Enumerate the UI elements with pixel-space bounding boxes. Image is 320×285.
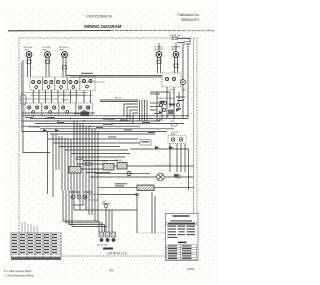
terminal feeder L1 bbox=[63, 190, 99, 221]
wire bbox=[75, 90, 77, 103]
wire drop bbox=[136, 196, 138, 233]
infinite switch SW1 bbox=[30, 77, 42, 90]
legend table text bbox=[168, 245, 192, 259]
part number bar bbox=[103, 248, 113, 250]
terminal feeder L4 bbox=[72, 190, 107, 226]
EOC drop wires bbox=[156, 92, 158, 118]
svg-text:RELAY: RELAY bbox=[115, 159, 123, 162]
connector arrow bbox=[43, 129, 47, 132]
harness block wire bbox=[75, 113, 81, 115]
connector arrow bbox=[155, 146, 160, 149]
oven light bbox=[157, 173, 165, 181]
wire bbox=[164, 176, 193, 178]
dashed wire bbox=[156, 164, 173, 166]
relay contacts bbox=[140, 140, 151, 146]
EOC dark marks bbox=[160, 101, 165, 103]
svg-text:UNIT: UNIT bbox=[171, 49, 177, 51]
scan speckle bbox=[6, 10, 214, 278]
surface element SU4 bbox=[156, 52, 162, 58]
surface element SU1 bbox=[26, 52, 32, 58]
supply drop wire bbox=[175, 43, 177, 52]
sensor wire bbox=[151, 192, 153, 233]
wire bbox=[86, 172, 110, 174]
svg-text:UNIT: UNIT bbox=[42, 50, 48, 52]
wire top row long bbox=[66, 75, 162, 77]
wire bbox=[62, 57, 64, 77]
wire label bbox=[103, 119, 115, 120]
terminal lug bbox=[112, 238, 116, 242]
wire bbox=[22, 112, 95, 114]
wire bbox=[90, 91, 92, 104]
wire bbox=[154, 187, 194, 189]
wire bbox=[30, 117, 188, 119]
surface element SU2 bbox=[45, 52, 51, 58]
dashed wire to legend bbox=[138, 232, 165, 234]
terminal box under SU4 bbox=[157, 60, 161, 64]
wire bbox=[22, 115, 188, 117]
legend title bar bbox=[167, 222, 197, 225]
wire bbox=[90, 176, 157, 178]
terminal block bbox=[99, 232, 104, 237]
selector label bbox=[81, 73, 93, 74]
svg-text:UNIT SW: UNIT SW bbox=[154, 49, 163, 51]
wire door cluster feed bbox=[98, 194, 137, 196]
terminal lug bbox=[106, 238, 110, 242]
wire bbox=[63, 90, 65, 103]
svg-text:DOOR SW: DOOR SW bbox=[29, 127, 41, 129]
legend table bbox=[167, 245, 197, 260]
wire bbox=[65, 57, 67, 77]
wire bbox=[150, 91, 170, 93]
wire bbox=[35, 123, 183, 125]
broil element label bbox=[115, 183, 127, 184]
wire rungs bbox=[48, 138, 139, 140]
wire bbox=[160, 57, 162, 73]
relay contact bbox=[76, 157, 82, 160]
wire bbox=[50, 90, 52, 103]
connector arrow bbox=[55, 129, 59, 132]
wire bbox=[71, 153, 130, 155]
svg-text:* = Non-Illustrated Parts: * = Non-Illustrated Parts bbox=[4, 273, 34, 277]
lamp component left bbox=[21, 95, 26, 104]
wire bbox=[22, 120, 160, 122]
svg-text:TOD: TOD bbox=[169, 90, 174, 92]
sensor wire bbox=[154, 196, 156, 233]
bake element bbox=[103, 164, 114, 171]
wire top row long 2 bbox=[70, 76, 162, 78]
harness label bbox=[73, 205, 84, 206]
wire SW4 drop bbox=[166, 87, 168, 118]
EOC board bbox=[168, 110, 175, 115]
infinite switch SW4 bbox=[67, 77, 79, 90]
wire pilot drop bbox=[182, 85, 184, 119]
wire label bbox=[47, 117, 55, 118]
wire L2 drop bbox=[187, 43, 189, 118]
table feed stub bbox=[21, 222, 23, 233]
svg-text:FEF352BACH: FEF352BACH bbox=[87, 14, 112, 19]
svg-text:24HP00123: 24HP00123 bbox=[107, 252, 127, 256]
terminal box under SU3 bbox=[63, 66, 67, 70]
connector arrow bbox=[169, 146, 174, 149]
wire bbox=[27, 57, 29, 77]
junction node bbox=[136, 193, 138, 195]
wire bbox=[77, 156, 125, 158]
wire bbox=[40, 128, 174, 130]
wire bbox=[177, 42, 184, 44]
infinite switch SW8 bbox=[76, 103, 93, 115]
wire bbox=[169, 144, 171, 173]
wire bbox=[45, 90, 47, 103]
svg-text:P12 BK: P12 BK bbox=[61, 100, 69, 102]
wire bbox=[22, 98, 58, 100]
wire L1 bus left pair bbox=[20, 62, 22, 131]
wire bbox=[57, 90, 59, 103]
wire color table bbox=[11, 233, 61, 257]
legend header bbox=[173, 215, 190, 216]
wire bbox=[81, 168, 103, 170]
diagram frame bbox=[19, 38, 197, 256]
wire bbox=[178, 38, 191, 41]
wire bbox=[65, 149, 128, 151]
wire bbox=[112, 209, 137, 211]
supply connector L2 bbox=[184, 42, 190, 45]
wire bbox=[98, 221, 100, 232]
wire bbox=[83, 91, 85, 104]
wire bbox=[22, 130, 167, 132]
wire SW4 drop bbox=[173, 87, 175, 118]
wire bbox=[59, 146, 120, 148]
connector arrow bbox=[176, 109, 180, 112]
surface element SU3 bbox=[62, 52, 68, 58]
wire bbox=[69, 90, 71, 103]
element left bbox=[69, 167, 81, 174]
broil element bbox=[117, 163, 127, 170]
pilot lamp bbox=[181, 80, 186, 85]
EOC stub wires bbox=[150, 102, 160, 104]
terminal feeder L2 bbox=[66, 190, 102, 223]
terminal feeder L3 bbox=[69, 190, 105, 225]
wire bbox=[150, 93, 160, 95]
infinite switch SW2 bbox=[42, 77, 54, 90]
wire color table text bbox=[12, 234, 57, 253]
wire bbox=[85, 205, 87, 210]
relay contact bbox=[85, 163, 91, 166]
wire bbox=[22, 92, 88, 94]
wire bbox=[77, 163, 112, 165]
switch box bbox=[89, 194, 98, 200]
svg-text:OVEN CONTROL: OVEN CONTROL bbox=[157, 98, 175, 100]
svg-text:24: 24 bbox=[109, 269, 113, 273]
wire bbox=[114, 165, 117, 167]
connector arrow bbox=[159, 111, 163, 114]
wire bbox=[157, 57, 159, 73]
neutral bus wire bbox=[193, 38, 195, 256]
svg-text:BAKE: BAKE bbox=[102, 160, 108, 163]
wire bbox=[127, 165, 194, 167]
fuse bbox=[104, 204, 107, 207]
wire L1 bus left bbox=[23, 60, 50, 153]
svg-text:BK-12: BK-12 bbox=[115, 98, 122, 100]
wire bbox=[98, 187, 137, 189]
svg-text:UNIT: UNIT bbox=[59, 50, 65, 52]
harness block bbox=[81, 112, 90, 117]
wire color table bottom row bbox=[11, 257, 61, 260]
wire bbox=[77, 81, 105, 83]
wire label bbox=[103, 124, 113, 125]
selector switch bbox=[80, 76, 95, 91]
harness label bbox=[95, 223, 103, 226]
infinite switch SW6 bbox=[42, 103, 59, 115]
svg-text:LIGHT: LIGHT bbox=[175, 178, 182, 180]
vertical harness bundle bbox=[48, 121, 99, 221]
door switch label bbox=[70, 192, 80, 193]
svg-text:RD BK RD: RD BK RD bbox=[97, 245, 108, 247]
wire bbox=[48, 57, 50, 77]
wire bbox=[50, 133, 155, 135]
wire bbox=[74, 209, 112, 211]
infinite switch SW3 bbox=[55, 77, 67, 90]
wire bbox=[95, 172, 150, 174]
svg-text:5995440372: 5995440372 bbox=[181, 18, 200, 22]
svg-text:Publication No.: Publication No. bbox=[178, 13, 200, 17]
supply connector P9 bbox=[172, 37, 178, 40]
connector block bbox=[174, 174, 179, 177]
terminal box under SU1 bbox=[27, 60, 31, 64]
infinite switch SW5 bbox=[25, 103, 42, 115]
wire bbox=[38, 90, 40, 103]
wire bbox=[100, 99, 138, 101]
infinite switch SW7 bbox=[59, 103, 76, 115]
wire bbox=[177, 57, 179, 73]
terminal box under SU2 bbox=[46, 60, 50, 64]
legend code rows bbox=[168, 226, 196, 238]
terminal lug bbox=[100, 238, 104, 242]
header rule bbox=[8, 30, 110, 32]
EOC label flecks bbox=[176, 97, 185, 98]
wire bbox=[105, 208, 107, 232]
resistor under SU5 bbox=[174, 64, 178, 68]
wire bbox=[45, 57, 47, 77]
wire label bbox=[25, 117, 33, 118]
wire bbox=[30, 95, 93, 97]
svg-text:WIRING DIAGRAM: WIRING DIAGRAM bbox=[84, 24, 122, 29]
wire bbox=[83, 160, 118, 162]
wire bbox=[73, 199, 75, 210]
svg-text:UNIT: UNIT bbox=[24, 50, 30, 52]
infinite switch SW9 right bbox=[162, 73, 181, 87]
clock assembly bbox=[168, 136, 186, 144]
wire label flecks bbox=[57, 120, 163, 138]
wire bbox=[32, 90, 34, 103]
svg-text:10/01: 10/01 bbox=[187, 267, 195, 271]
EOC pins bbox=[139, 100, 141, 121]
supply drop wire bbox=[158, 43, 160, 52]
wire bbox=[174, 57, 176, 73]
wire bbox=[60, 94, 85, 96]
light switch bbox=[127, 171, 131, 175]
loop wire bbox=[130, 149, 189, 190]
legend note bbox=[178, 242, 187, 244]
surface element SU5 bbox=[173, 52, 179, 58]
door switch cluster bbox=[71, 195, 75, 199]
broil element lower bbox=[137, 185, 154, 191]
legend box bbox=[166, 214, 199, 261]
junction dots bbox=[33, 115, 189, 127]
nested corner wires bbox=[105, 104, 138, 116]
wire bbox=[22, 125, 140, 127]
supply drop wire bbox=[182, 44, 184, 80]
wire bbox=[30, 57, 32, 77]
